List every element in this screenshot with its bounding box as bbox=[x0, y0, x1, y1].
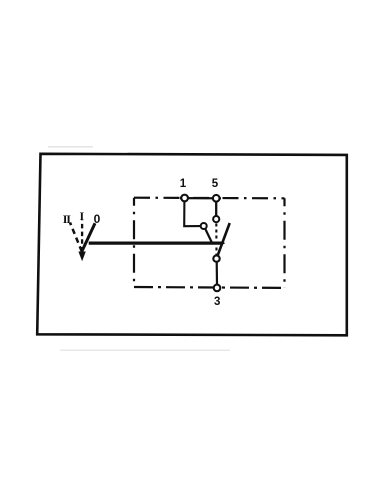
svg-text:0: 0 bbox=[94, 212, 101, 226]
switch body outline bottom edge bbox=[134, 286, 285, 289]
scan smudge below bottom border bbox=[60, 350, 230, 352]
outer border frame of schematic bbox=[37, 154, 347, 335]
switch body outline left edge bbox=[133, 198, 135, 287]
lever position line 0 (solid) bbox=[82, 223, 95, 251]
contact B (small circle below terminal 5) bbox=[213, 216, 219, 222]
terminal 3 circle bbox=[214, 285, 221, 292]
terminal 5 circle bbox=[213, 195, 220, 202]
svg-text:5: 5 bbox=[212, 178, 219, 190]
contact C (small circle above terminal 3) bbox=[213, 255, 219, 261]
wire from contact C down to terminal 3 bbox=[216, 261, 219, 285]
switch body outline right edge bbox=[283, 198, 285, 288]
movable blade from contact C up-right bbox=[217, 223, 230, 259]
wire from terminal 5 down to contact B bbox=[215, 201, 217, 216]
thick actuator rod from lever to blade bbox=[89, 242, 226, 245]
svg-text:3: 3 bbox=[214, 296, 220, 308]
switch body outline (dash-dot box) top edge bbox=[134, 197, 285, 200]
wire from terminal 1 down and right to contact A bbox=[184, 201, 200, 226]
lever pivot triangle bbox=[78, 252, 85, 262]
svg-text:1: 1 bbox=[180, 178, 187, 190]
wire segment between terminal 1 and terminal 5 on top edge bbox=[180, 197, 221, 199]
scan smudge above top border bbox=[48, 146, 93, 148]
terminal 1 circle bbox=[181, 195, 188, 202]
contact A (small circle left of centre) bbox=[201, 223, 207, 229]
dashed actuator link between contact B and contact C bbox=[215, 224, 217, 255]
blade segment from contact A to pivot bbox=[204, 226, 213, 244]
lever position line I (dashed) bbox=[81, 221, 83, 252]
svg-text:I: I bbox=[79, 209, 84, 223]
lever position line II (dashed) bbox=[70, 223, 82, 252]
